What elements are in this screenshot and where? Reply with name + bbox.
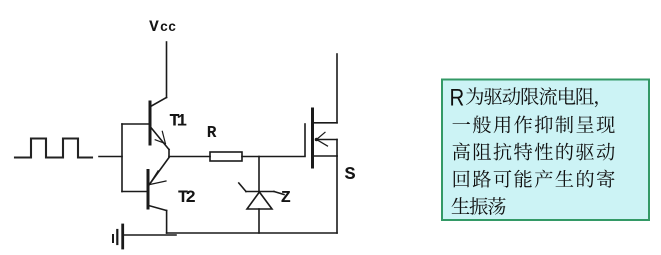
transistor T2 xyxy=(148,158,169,211)
svg-text:R: R xyxy=(450,84,465,111)
wire drain xyxy=(336,54,338,123)
zener diode Z xyxy=(239,183,284,209)
resistor R xyxy=(210,152,242,161)
wire input to base bus xyxy=(99,156,122,158)
wire T2 base xyxy=(122,191,147,193)
wire zener to ground rail xyxy=(258,209,260,233)
wire Vcc lead xyxy=(166,42,168,98)
ground xyxy=(113,225,176,248)
wire source xyxy=(336,156,338,233)
annotation text line 5 xyxy=(452,197,506,215)
svg-text:T1: T1 xyxy=(169,112,186,132)
mosfet Q1 xyxy=(305,109,337,167)
svg-text:V: V xyxy=(149,18,159,36)
input square wave xyxy=(15,139,92,158)
annotation box xyxy=(442,80,649,221)
power Vcc label xyxy=(149,18,176,36)
svg-text:R: R xyxy=(207,124,217,142)
wire resistor to gate xyxy=(242,156,305,158)
svg-text:cc: cc xyxy=(160,21,176,36)
wire T2 collector to ground rail xyxy=(166,211,168,234)
svg-text:Z: Z xyxy=(281,189,291,208)
wire ground rail xyxy=(167,232,337,234)
wire emitter node to resistor xyxy=(169,156,210,158)
annotation text line 4 xyxy=(454,170,615,188)
svg-text:T2: T2 xyxy=(178,188,196,208)
annotation text line 1 xyxy=(466,87,598,107)
wire base bus vertical xyxy=(121,124,123,192)
annotation text line 2 xyxy=(453,115,615,133)
wire T1 base xyxy=(122,123,149,125)
annotation text line 3 xyxy=(453,143,615,161)
transistor T1 xyxy=(150,98,169,157)
wire zener branch upper xyxy=(258,157,260,192)
svg-text:S: S xyxy=(345,164,356,185)
